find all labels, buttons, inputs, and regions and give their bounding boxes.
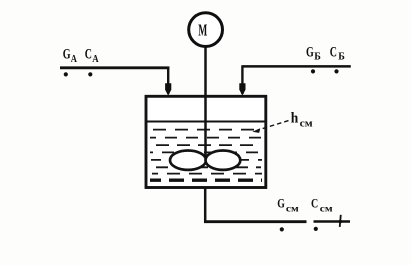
leader line from h_cm to liquid xyxy=(252,121,288,133)
tank vessel xyxy=(146,96,266,187)
inlet A pipe wire xyxy=(60,67,169,94)
svg-text:h: h xyxy=(291,110,299,126)
liquid surface line h level xyxy=(147,121,265,123)
stirrer impeller left ellipse xyxy=(170,151,206,170)
svg-text:Б: Б xyxy=(338,52,345,63)
svg-text:C: C xyxy=(330,44,337,60)
svg-text:C: C xyxy=(85,46,92,62)
label C_cm xyxy=(311,196,333,215)
outlet pipe wire xyxy=(204,188,307,223)
svg-text:C: C xyxy=(311,196,318,211)
svg-text:G: G xyxy=(63,46,71,62)
label G_B xyxy=(306,44,321,62)
label G_cm xyxy=(277,196,299,215)
label h_cm level xyxy=(291,110,313,129)
outlet pipe second segment xyxy=(314,220,351,223)
node dots under G_A C_A xyxy=(64,72,93,76)
inlet A arrowhead xyxy=(165,83,171,95)
svg-text:см: см xyxy=(320,204,333,214)
label C_A xyxy=(85,46,99,64)
label C_B xyxy=(330,44,345,62)
stirrer impeller right ellipse xyxy=(206,151,241,170)
inlet B pipe wire xyxy=(242,65,350,94)
svg-text:А: А xyxy=(92,54,99,65)
svg-text:А: А xyxy=(71,54,78,65)
svg-text:M: M xyxy=(198,21,207,40)
motor shaft wire xyxy=(204,46,207,157)
label G_A xyxy=(63,46,78,64)
node dots under G_B C_B xyxy=(311,69,339,73)
svg-text:G: G xyxy=(306,44,314,60)
inlet B arrowhead xyxy=(239,83,245,95)
motor M circle xyxy=(189,13,223,47)
svg-text:Б: Б xyxy=(314,52,321,63)
svg-text:см: см xyxy=(286,204,299,214)
svg-text:G: G xyxy=(277,196,285,211)
node dots under G_cm C_cm xyxy=(280,227,318,232)
svg-text:см: см xyxy=(300,118,313,129)
bold bottom dashes of liquid xyxy=(150,178,262,181)
outlet arrow tick xyxy=(339,215,343,227)
liquid hatching dashes xyxy=(150,130,262,174)
